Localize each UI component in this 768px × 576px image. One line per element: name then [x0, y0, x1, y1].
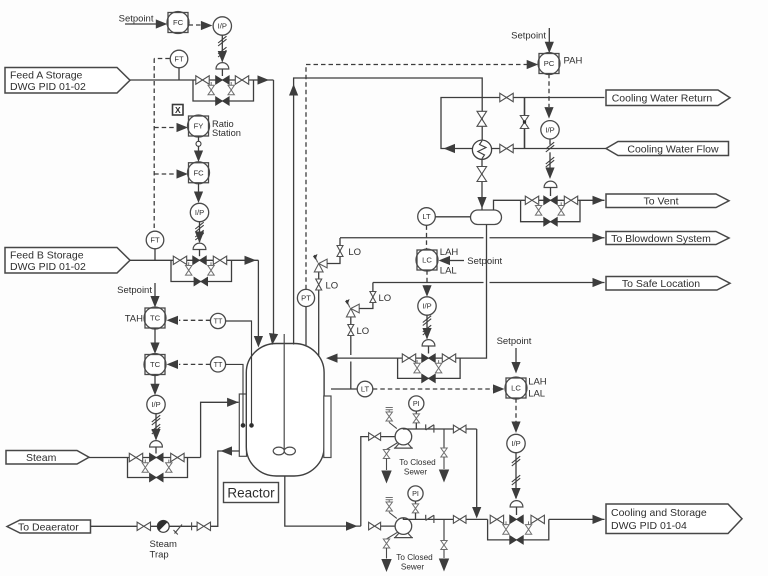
svg-text:DWG PID 01-04: DWG PID 01-04 [611, 520, 687, 532]
svg-text:Sewer: Sewer [401, 563, 424, 572]
svg-text:Setpoint: Setpoint [511, 31, 546, 42]
svg-text:Steam: Steam [150, 539, 178, 550]
svg-text:Feed B Storage: Feed B Storage [10, 249, 84, 261]
svg-text:LO: LO [348, 247, 361, 258]
svg-text:Steam: Steam [26, 452, 57, 464]
svg-text:PAH: PAH [564, 56, 583, 67]
svg-text:FY: FY [194, 122, 204, 131]
svg-text:To Safe Location: To Safe Location [622, 278, 700, 290]
svg-text:PI: PI [413, 399, 420, 408]
svg-text:TAH: TAH [125, 314, 143, 325]
svg-text:I/P: I/P [195, 208, 204, 217]
svg-text:TC: TC [150, 360, 161, 369]
svg-text:To Vent: To Vent [643, 196, 678, 208]
svg-text:Trap: Trap [150, 550, 169, 561]
svg-text:To Deaerator: To Deaerator [18, 521, 79, 533]
svg-text:LC: LC [511, 384, 521, 393]
svg-text:X: X [175, 105, 181, 115]
svg-text:To Blowdown System: To Blowdown System [611, 233, 711, 245]
svg-text:TT: TT [214, 317, 223, 326]
svg-text:FC: FC [173, 18, 184, 27]
svg-text:Setpoint: Setpoint [497, 336, 532, 347]
svg-text:FT: FT [150, 236, 160, 245]
svg-text:I/P: I/P [545, 125, 554, 134]
svg-text:LAL: LAL [528, 389, 545, 400]
svg-text:Setpoint: Setpoint [119, 14, 154, 25]
svg-text:LT: LT [422, 212, 431, 221]
svg-text:DWG PID 01-02: DWG PID 01-02 [10, 81, 86, 93]
svg-text:Reactor: Reactor [227, 486, 275, 501]
svg-text:PI: PI [412, 489, 419, 498]
svg-text:LO: LO [326, 280, 339, 291]
svg-text:PT: PT [301, 294, 311, 303]
svg-text:To Closed: To Closed [396, 553, 433, 562]
svg-text:TT: TT [214, 360, 223, 369]
svg-text:Setpoint: Setpoint [117, 285, 152, 296]
svg-text:FC: FC [193, 168, 204, 177]
svg-text:I/P: I/P [218, 22, 227, 31]
svg-text:LO: LO [379, 293, 392, 304]
svg-text:Station: Station [212, 128, 241, 138]
svg-text:I/P: I/P [422, 302, 431, 311]
svg-text:DWG PID 01-02: DWG PID 01-02 [10, 261, 86, 273]
svg-text:I/P: I/P [151, 400, 160, 409]
svg-text:LAH: LAH [528, 377, 547, 388]
svg-text:To Closed: To Closed [399, 458, 436, 467]
svg-text:Sewer: Sewer [404, 468, 427, 477]
svg-text:TC: TC [150, 314, 161, 323]
svg-text:LAL: LAL [440, 266, 457, 277]
svg-text:LT: LT [361, 385, 370, 394]
svg-text:Cooling Water Flow: Cooling Water Flow [627, 143, 719, 155]
svg-text:Setpoint: Setpoint [467, 256, 502, 267]
svg-text:FT: FT [174, 55, 184, 64]
svg-text:PC: PC [544, 59, 555, 68]
svg-text:Feed A Storage: Feed A Storage [10, 69, 83, 81]
svg-text:LO: LO [357, 326, 370, 337]
svg-text:Cooling and Storage: Cooling and Storage [611, 507, 707, 519]
svg-text:I/P: I/P [511, 439, 520, 448]
svg-text:LC: LC [422, 256, 432, 265]
svg-text:Cooling Water Return: Cooling Water Return [612, 93, 713, 105]
